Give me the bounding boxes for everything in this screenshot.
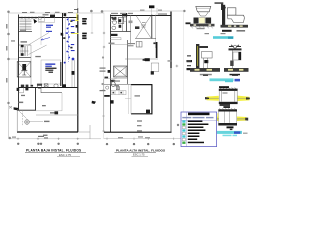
grid bubble mid-left lower <box>101 83 103 85</box>
dark wedge on wall x62 <box>61 33 64 36</box>
laundry lines <box>36 93 63 111</box>
stair ladder lower (vertical rungs) <box>20 46 29 56</box>
detail D4 sink section <box>224 45 249 76</box>
top dimension line <box>9 12 104 14</box>
grid bubble top x184.4 <box>183 10 185 12</box>
pier side dash <box>153 42 155 44</box>
bathroom fixtures middle plan <box>112 18 124 30</box>
stair dark treads <box>21 45 24 47</box>
kitchen wall segment <box>104 84 131 86</box>
vent pipe symbol top <box>215 2 226 10</box>
black label on left wing <box>210 119 215 121</box>
small box on wall x77 <box>76 25 78 28</box>
bottom dimension line <box>9 138 101 140</box>
detail D3 shower section <box>187 44 220 75</box>
title left plan <box>25 149 86 157</box>
grid bubble left x103 <box>102 56 104 58</box>
black spec text in bath <box>45 68 56 73</box>
bottom slab <box>218 123 237 126</box>
PM dark marker <box>143 58 150 61</box>
kitchen counter <box>19 88 24 93</box>
yellow wing right <box>238 96 250 101</box>
stair hatch ticks along top wall <box>20 17 37 19</box>
row 3 <box>182 126 185 128</box>
kitchen fixtures upper-left of lower half <box>105 77 120 90</box>
fixtures above mid wall <box>21 85 24 87</box>
dark blob laundry <box>55 111 59 114</box>
outer wall top <box>19 17 79 19</box>
patio center plant symbol <box>21 64 27 75</box>
blue plumbing symbols corridor <box>64 19 75 64</box>
grid bubble top-left <box>101 10 104 13</box>
wall x35.8 <box>35 87 37 110</box>
pipe chase lines corridor <box>72 60 74 87</box>
top slab <box>218 109 237 111</box>
grid bubble left 4 <box>7 102 9 104</box>
outer wall left <box>18 15 20 111</box>
wall x77.8 full height <box>77 15 79 133</box>
meter blob outside left wall <box>14 107 19 110</box>
row 2 <box>182 123 185 125</box>
wall y31.5 <box>19 31 33 33</box>
bottom dimension line <box>104 138 183 140</box>
grid bubble top x91.4 <box>90 10 93 13</box>
cabinet row below kitchen <box>111 91 126 95</box>
legend divider <box>181 112 217 147</box>
ceiling lamp circle bottom <box>25 120 43 125</box>
patio box with X <box>17 62 31 78</box>
vertical x31 <box>30 45 32 86</box>
bottom wall y132 <box>17 131 78 133</box>
legend title bar <box>188 113 210 116</box>
yellow wing left <box>207 96 219 101</box>
grid bubble left 3 <box>7 58 10 61</box>
svg-text:PLANTA ALTA INSTAL. FLUIDOS: PLANTA ALTA INSTAL. FLUIDOS <box>116 149 165 153</box>
blue riser line corridor <box>67 17 69 62</box>
black arrow marker right side <box>92 101 97 104</box>
blue room label BANO.1 <box>45 63 55 67</box>
grid bubble left 5 <box>9 137 11 139</box>
dark dashes right margin <box>187 60 193 62</box>
h line y59 <box>125 58 158 60</box>
row 5 <box>182 132 185 134</box>
dim crosses right <box>176 65 179 68</box>
black valve blob corridor <box>72 71 75 75</box>
yellow pipe vertical <box>76 14 78 22</box>
dark blob below box <box>151 71 154 74</box>
bath bottom wall <box>41 88 62 94</box>
bath wall y31.5 <box>110 31 131 33</box>
stair room walls <box>151 15 153 39</box>
grid line x104 <box>103 13 105 47</box>
bath wall x126.5 <box>126 15 128 32</box>
bubble leader y59 <box>10 58 18 60</box>
sides and inner columns <box>219 112 237 124</box>
row 4 <box>182 129 185 131</box>
cyan caption detalle 1 <box>205 33 234 39</box>
wall stub above plan <box>77 0 79 14</box>
right wall <box>170 12 172 69</box>
grey texts middle plan <box>109 10 173 139</box>
cyan caption instalacion sanitaria <box>203 75 240 82</box>
legend subtitle text <box>182 117 191 118</box>
dark wall right of bath <box>60 62 62 86</box>
stair ladder upper <box>20 19 32 32</box>
thick pier x156.5 <box>156 42 158 58</box>
title middle plan <box>115 149 166 157</box>
grid bubble left 2 <box>7 33 10 36</box>
grid bubble A top-left <box>7 11 10 14</box>
diagonal leader upper <box>28 33 50 46</box>
cistern room thick walls <box>131 84 152 86</box>
grid bubble right x178 y125 <box>177 124 179 126</box>
bath room box <box>41 60 61 84</box>
small box below <box>151 63 159 72</box>
sides <box>219 91 237 102</box>
door arc lower <box>111 78 118 85</box>
dark box on top wall <box>122 13 127 16</box>
garage left boundary <box>16 110 18 132</box>
corridor black dashes <box>70 20 72 22</box>
box detail B registro 2 <box>210 104 248 130</box>
wall y45 <box>19 44 32 46</box>
vertical label text right of wall x78 <box>82 18 87 39</box>
legend border <box>181 112 217 147</box>
svg-text:ESC 1:75: ESC 1:75 <box>133 153 145 157</box>
diagonal leader stair <box>29 45 47 55</box>
stair room X diagonals <box>136 16 151 39</box>
wall tick blob <box>108 70 111 73</box>
grid bubbles bottom row <box>106 143 108 145</box>
yellow wing left <box>217 113 219 121</box>
dark blob cistern corner <box>146 110 150 114</box>
yellow pipe horizontal 2 <box>71 33 79 35</box>
stair room center marks <box>141 23 146 28</box>
blue room label D.05 <box>46 25 53 32</box>
top slab <box>219 89 238 91</box>
skylight shaft box with X <box>114 66 128 77</box>
dark text C18 <box>104 95 110 97</box>
left dimension line <box>8 13 10 139</box>
detail D1 lavatory section <box>190 6 215 29</box>
bedroom closet lines <box>110 38 128 45</box>
cyan caption bottom right <box>213 131 248 136</box>
thin interior y115 <box>36 114 78 116</box>
box detail A registro <box>205 80 250 104</box>
grid line x92 <box>91 13 93 34</box>
yellow wing right <box>237 117 247 122</box>
top wall <box>110 15 171 17</box>
corner blob near bath <box>63 84 66 87</box>
yellow pipe horizontal 1 <box>70 20 79 22</box>
fixtures below mid wall (toilet sink shower) <box>37 84 58 89</box>
dim ticks right column <box>91 32 105 48</box>
inner mark <box>223 92 228 93</box>
dark blob on top wall <box>50 15 55 18</box>
wall y109.5 <box>17 109 36 111</box>
detail D2 toilet section <box>221 5 249 32</box>
right dim line between plans <box>103 47 105 139</box>
room divider x41 <box>40 18 42 46</box>
left wall <box>110 15 112 133</box>
corridor inner line <box>65 14 67 87</box>
grey text B.03 <box>129 21 133 24</box>
row 6 <box>182 135 185 137</box>
left boundary lower <box>103 79 105 132</box>
thin line to x90 <box>78 125 90 139</box>
kitchen dark blobs below wall <box>17 88 20 91</box>
drain circle <box>106 86 109 89</box>
cursor triangle marker <box>34 19 38 24</box>
row 1 <box>182 120 185 122</box>
washer fixtures lower-left stair room <box>136 42 142 48</box>
wall x130.7 <box>130 15 132 45</box>
dark marks right corridor <box>135 26 139 29</box>
bottom wall <box>104 131 172 133</box>
wall y57.8 <box>19 57 32 59</box>
top dimension line <box>101 10 185 12</box>
wall x127.7 mid <box>127 40 129 84</box>
grid bubbles bottom row <box>17 143 19 145</box>
wall x62 <box>62 13 64 87</box>
grey dimension/room texts left plan <box>6 12 105 139</box>
interior light lines <box>125 85 131 114</box>
dark label rec.02 <box>111 34 118 36</box>
bottom slab <box>219 102 238 104</box>
row 8 <box>182 142 185 144</box>
top corridor black mark <box>64 13 67 16</box>
mid wall y87 <box>19 87 79 89</box>
dark blob left <box>110 100 114 103</box>
svg-text:PLANTA BAJA INSTAL. FLUIDOS: PLANTA BAJA INSTAL. FLUIDOS <box>26 149 81 153</box>
blue leader arrow living <box>41 38 50 41</box>
bedroom top-right room lines <box>38 13 55 23</box>
grid line x183.5 <box>183 12 185 133</box>
svg-text:ESC 1:75: ESC 1:75 <box>59 153 71 157</box>
garage dashed line <box>22 110 24 126</box>
row 7 <box>182 138 185 140</box>
tinaco black box top <box>149 5 154 8</box>
label below <box>227 126 234 128</box>
bathroom inner wall <box>121 16 123 32</box>
